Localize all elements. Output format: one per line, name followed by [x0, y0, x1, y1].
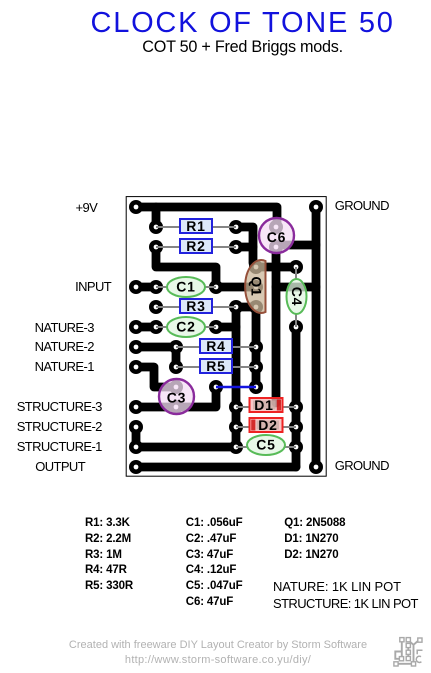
wire row 287 branch from column 276 to ground column: [276, 283, 316, 292]
wire R3-right to Q1 emitter row 307: [236, 303, 256, 312]
node label STRUCTURE-3: [17, 399, 102, 414]
node C5 pin 2: [289, 440, 303, 454]
resistor R3: [180, 298, 212, 314]
svg-text:C2: C2: [176, 319, 196, 335]
node R5 pin 2: [249, 360, 263, 374]
resistor R4: [200, 338, 232, 354]
wire column 296 from C4 bottom down through D1/D2/C5 right to ground rail: [292, 327, 301, 467]
node C3 pin 1: [169, 380, 183, 394]
node Q1 collector: [249, 260, 263, 274]
transistor Q1: [245, 260, 265, 313]
wire STRUCTURE-3 row 407 through C3 bottom up to jumper-row pad: [136, 387, 216, 407]
value labels resistors: [85, 516, 133, 595]
wire +9V rail row 207 into C6 top: [136, 207, 277, 227]
node label GROUND bottom: [335, 458, 389, 473]
node R2 pin 2: [229, 240, 243, 254]
capacitor C3: [159, 379, 194, 414]
resistor R5: [200, 358, 232, 374]
title CLOCK OF TONE 50: [91, 7, 395, 40]
node R1 pin 1: [149, 220, 163, 234]
node R2 pin 1: [149, 240, 163, 254]
node C1 pin 2: [209, 280, 223, 294]
diode D1: [250, 397, 283, 413]
capacitor C2: [167, 317, 205, 337]
svg-text:R5: R5: [206, 358, 226, 374]
node label NATURE-2: [35, 339, 94, 354]
lead R3: [156, 306, 236, 308]
note STRUCTURE pot: [273, 596, 418, 611]
wire column 276 from C6 bottom down to D1: [272, 247, 281, 403]
node NATURE-1 pad: [129, 360, 143, 374]
board outline: [126, 197, 326, 477]
wire ground column 316: [312, 207, 321, 467]
node label GROUND top: [335, 198, 389, 213]
lead C1: [156, 286, 216, 288]
node label OUTPUT: [35, 459, 85, 474]
node NATURE-2 pad: [129, 340, 143, 354]
lead R1: [156, 226, 236, 228]
node C4 pin 2: [289, 320, 303, 334]
node INPUT pad: [129, 280, 143, 294]
node C2 pin 1: [149, 320, 163, 334]
node STRUCTURE-2 pad: [129, 420, 143, 434]
footer url line: [125, 654, 311, 666]
note NATURE pot: [273, 579, 401, 594]
node D2 cathode: [229, 420, 243, 434]
node Q1 emitter: [249, 300, 263, 314]
node STRUCTURE-1 pad: [129, 440, 143, 454]
node R3 pin 2: [229, 300, 243, 314]
wire R4 left to R5 left column 176: [172, 347, 181, 367]
lead D1: [236, 406, 296, 408]
svg-text:C6: C6: [267, 229, 287, 245]
node C5 pin 1: [229, 440, 243, 454]
node GROUND bottom pad: [309, 460, 323, 474]
node C6 pin 2: [269, 240, 283, 254]
lead D2: [236, 426, 296, 428]
lead R4: [176, 346, 256, 348]
capacitor C4: [287, 279, 307, 314]
wire NATURE-3 pad pair row 327: [136, 323, 156, 332]
node C1 pin 1: [149, 280, 163, 294]
node OUTPUT pad: [129, 460, 143, 474]
wire branch from ground column to C6 bottom: [277, 241, 316, 250]
node D2 anode: [289, 420, 303, 434]
jumper wire (blue): [216, 386, 256, 389]
svg-text:R4: R4: [206, 338, 226, 354]
node R1 pin 2: [229, 220, 243, 234]
svg-text:D2: D2: [258, 417, 278, 433]
node label STRUCTURE-1: [17, 439, 102, 454]
capacitor C6: [259, 218, 294, 253]
wire column 236 from R3-right down to C5 left: [232, 307, 241, 447]
node C6 pin 1: [269, 220, 283, 234]
node NATURE-3 pad: [129, 320, 143, 334]
wire NATURE-2 row 347 to R4 left: [136, 343, 176, 352]
wire bottom ground rail row 467: [136, 463, 296, 472]
wire R1-right over and down to Q1 collector: [236, 227, 256, 267]
svg-text:C4: C4: [289, 287, 305, 307]
svg-text:R3: R3: [186, 298, 206, 314]
node label NATURE-1: [35, 359, 94, 374]
resistor R1: [180, 218, 212, 234]
node R5 pin 1: [169, 360, 183, 374]
node Q1 base: [249, 280, 263, 294]
node C2 pin 2: [209, 320, 223, 334]
node label +9V: [76, 200, 98, 215]
node R3 pin 1: [149, 300, 163, 314]
wire STRUCTURE-2 stub to row 447: [132, 427, 141, 447]
wire Q1 collector to C4 top row 267: [256, 263, 296, 272]
lead C2: [156, 326, 216, 328]
lead C5: [236, 446, 296, 448]
lead R2: [156, 246, 236, 248]
subtitle: [142, 38, 343, 57]
node STRUCTURE-3 pad: [129, 400, 143, 414]
node label NATURE-3: [35, 320, 94, 335]
resistor R2: [180, 238, 212, 254]
wire NATURE-1 over and down to C3 top: [136, 367, 176, 387]
node C3 pin 2: [169, 400, 183, 414]
svg-text:R1: R1: [186, 218, 206, 234]
node D1 cathode: [289, 400, 303, 414]
diode D2: [250, 417, 283, 433]
node label STRUCTURE-2: [17, 419, 102, 434]
node D1 anode: [229, 400, 243, 414]
svg-text:C1: C1: [176, 279, 196, 295]
node jumper pin 2: [249, 380, 263, 394]
svg-text:R2: R2: [186, 238, 206, 254]
node R4 pin 1: [169, 340, 183, 354]
wire R2-right spur: [236, 243, 253, 252]
node R4 pin 2: [249, 340, 263, 354]
wire INPUT pad pair row 287: [136, 283, 156, 292]
footer credit line: [69, 639, 367, 651]
value labels semiconductors: [284, 516, 345, 564]
wire column 256 from Q1 emitter down to jumper pad: [252, 307, 261, 387]
node C4 pin 1: [289, 260, 303, 274]
lead C4: [295, 267, 297, 327]
svg-text:D1: D1: [254, 397, 274, 413]
node GROUND top pad: [309, 200, 323, 214]
lead R5: [176, 366, 256, 368]
capacitor C5: [247, 435, 285, 455]
capacitor C1: [167, 277, 205, 297]
svg-text:C5: C5: [256, 437, 276, 453]
node +9V pad: [129, 200, 143, 214]
value labels capacitors: [186, 516, 243, 611]
DIY logo: [388, 632, 431, 670]
node jumper pin 1: [209, 380, 223, 394]
node label INPUT: [75, 279, 111, 294]
wire drop from rail to R1 left: [152, 207, 161, 227]
svg-text:Q1: Q1: [249, 276, 265, 296]
wire C2-right into column 236: [216, 323, 236, 332]
wire STRUCTURE-1 row 447 to C5 left: [136, 443, 236, 452]
svg-text:C3: C3: [167, 390, 187, 406]
wire R2-left down and across to C1-right then to Q1 base: [156, 247, 256, 287]
